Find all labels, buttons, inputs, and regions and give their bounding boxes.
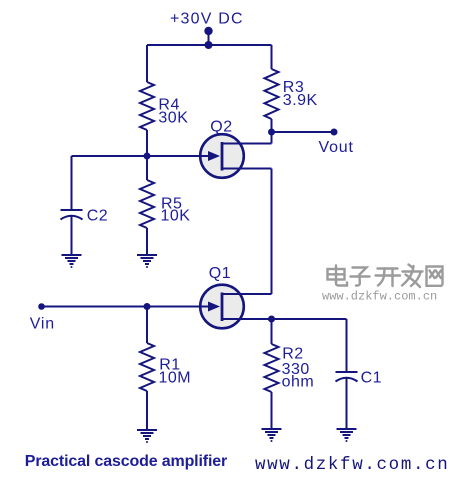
svg-text:www.dzkfw.com.cn: www.dzkfw.com.cn xyxy=(322,289,437,303)
wire R3 top xyxy=(271,45,273,69)
svg-text:Vin: Vin xyxy=(30,315,55,332)
ground C2 xyxy=(62,255,82,268)
resistor R4 xyxy=(140,82,154,130)
resistor R1 xyxy=(140,343,154,391)
svg-text:R2: R2 xyxy=(282,345,303,362)
svg-text:Vout: Vout xyxy=(319,139,354,156)
wire Vin rail xyxy=(42,306,210,308)
junction Q1 source/R2 xyxy=(268,316,275,323)
svg-text:Practical cascode amplifier: Practical cascode amplifier xyxy=(25,453,227,470)
wire R5 bottom xyxy=(146,228,148,255)
junction Vin/R1 xyxy=(144,303,151,310)
ground R1 xyxy=(137,430,157,443)
svg-text:ohm: ohm xyxy=(282,373,315,390)
watermark 网 xyxy=(427,267,443,286)
svg-text:10K: 10K xyxy=(161,207,191,224)
wire R1 bottom xyxy=(146,391,148,430)
wire R2 drop xyxy=(271,319,273,344)
junction R3/Vout xyxy=(268,129,275,136)
wire C2 bottom xyxy=(71,216,73,255)
wire C1 bottom xyxy=(346,378,348,429)
wire Q2 source down to Q1 drain xyxy=(271,169,273,295)
wire R4 bottom xyxy=(146,130,148,156)
resistor R3 xyxy=(265,69,279,119)
capacitor C2 xyxy=(61,210,83,220)
svg-text:www.dzkfw.com.cn: www.dzkfw.com.cn xyxy=(255,455,449,475)
watermark 发 xyxy=(402,265,423,288)
wire Vout xyxy=(272,131,335,133)
wire top rail xyxy=(147,44,272,46)
capacitor C1 xyxy=(336,372,358,382)
terminal dot Vin xyxy=(38,303,45,310)
svg-text:C2: C2 xyxy=(87,207,108,224)
svg-text:Q2: Q2 xyxy=(210,118,232,135)
watermark 电 xyxy=(328,266,348,286)
transistor Q1 xyxy=(197,285,347,329)
wire R5 top xyxy=(146,156,148,180)
junction +30V rail xyxy=(205,41,213,49)
svg-text:3.9K: 3.9K xyxy=(283,92,318,109)
resistor R2 xyxy=(265,344,279,392)
svg-text:30K: 30K xyxy=(158,110,188,127)
wire R1 drop xyxy=(146,307,148,344)
wire R4 top xyxy=(146,45,148,82)
terminal dot Vout xyxy=(331,129,338,136)
svg-text:C1: C1 xyxy=(361,370,382,387)
ground C1 xyxy=(337,429,357,442)
wire R3 bottom xyxy=(271,119,273,132)
svg-text:10M: 10M xyxy=(159,369,192,386)
wire C1 drop xyxy=(346,319,348,372)
wire +30V stub xyxy=(208,31,210,45)
terminal dot +30V xyxy=(204,27,212,35)
junction R4/R5/C2 xyxy=(144,153,151,160)
resistor R5 xyxy=(140,180,154,228)
wire mid rail C2/R5/gate xyxy=(72,155,210,157)
wire Q2 drain up to Vout junction xyxy=(271,132,273,144)
ground R2 xyxy=(262,429,282,442)
transistor Q2 xyxy=(197,134,272,178)
ground R5 xyxy=(137,255,157,268)
svg-text:Q1: Q1 xyxy=(209,265,231,282)
wire R2 bottom xyxy=(271,392,273,429)
svg-text:+30V DC: +30V DC xyxy=(170,11,244,28)
watermark 开 xyxy=(376,269,401,287)
wire C2 drop xyxy=(71,156,73,210)
watermark 子 xyxy=(351,268,370,286)
